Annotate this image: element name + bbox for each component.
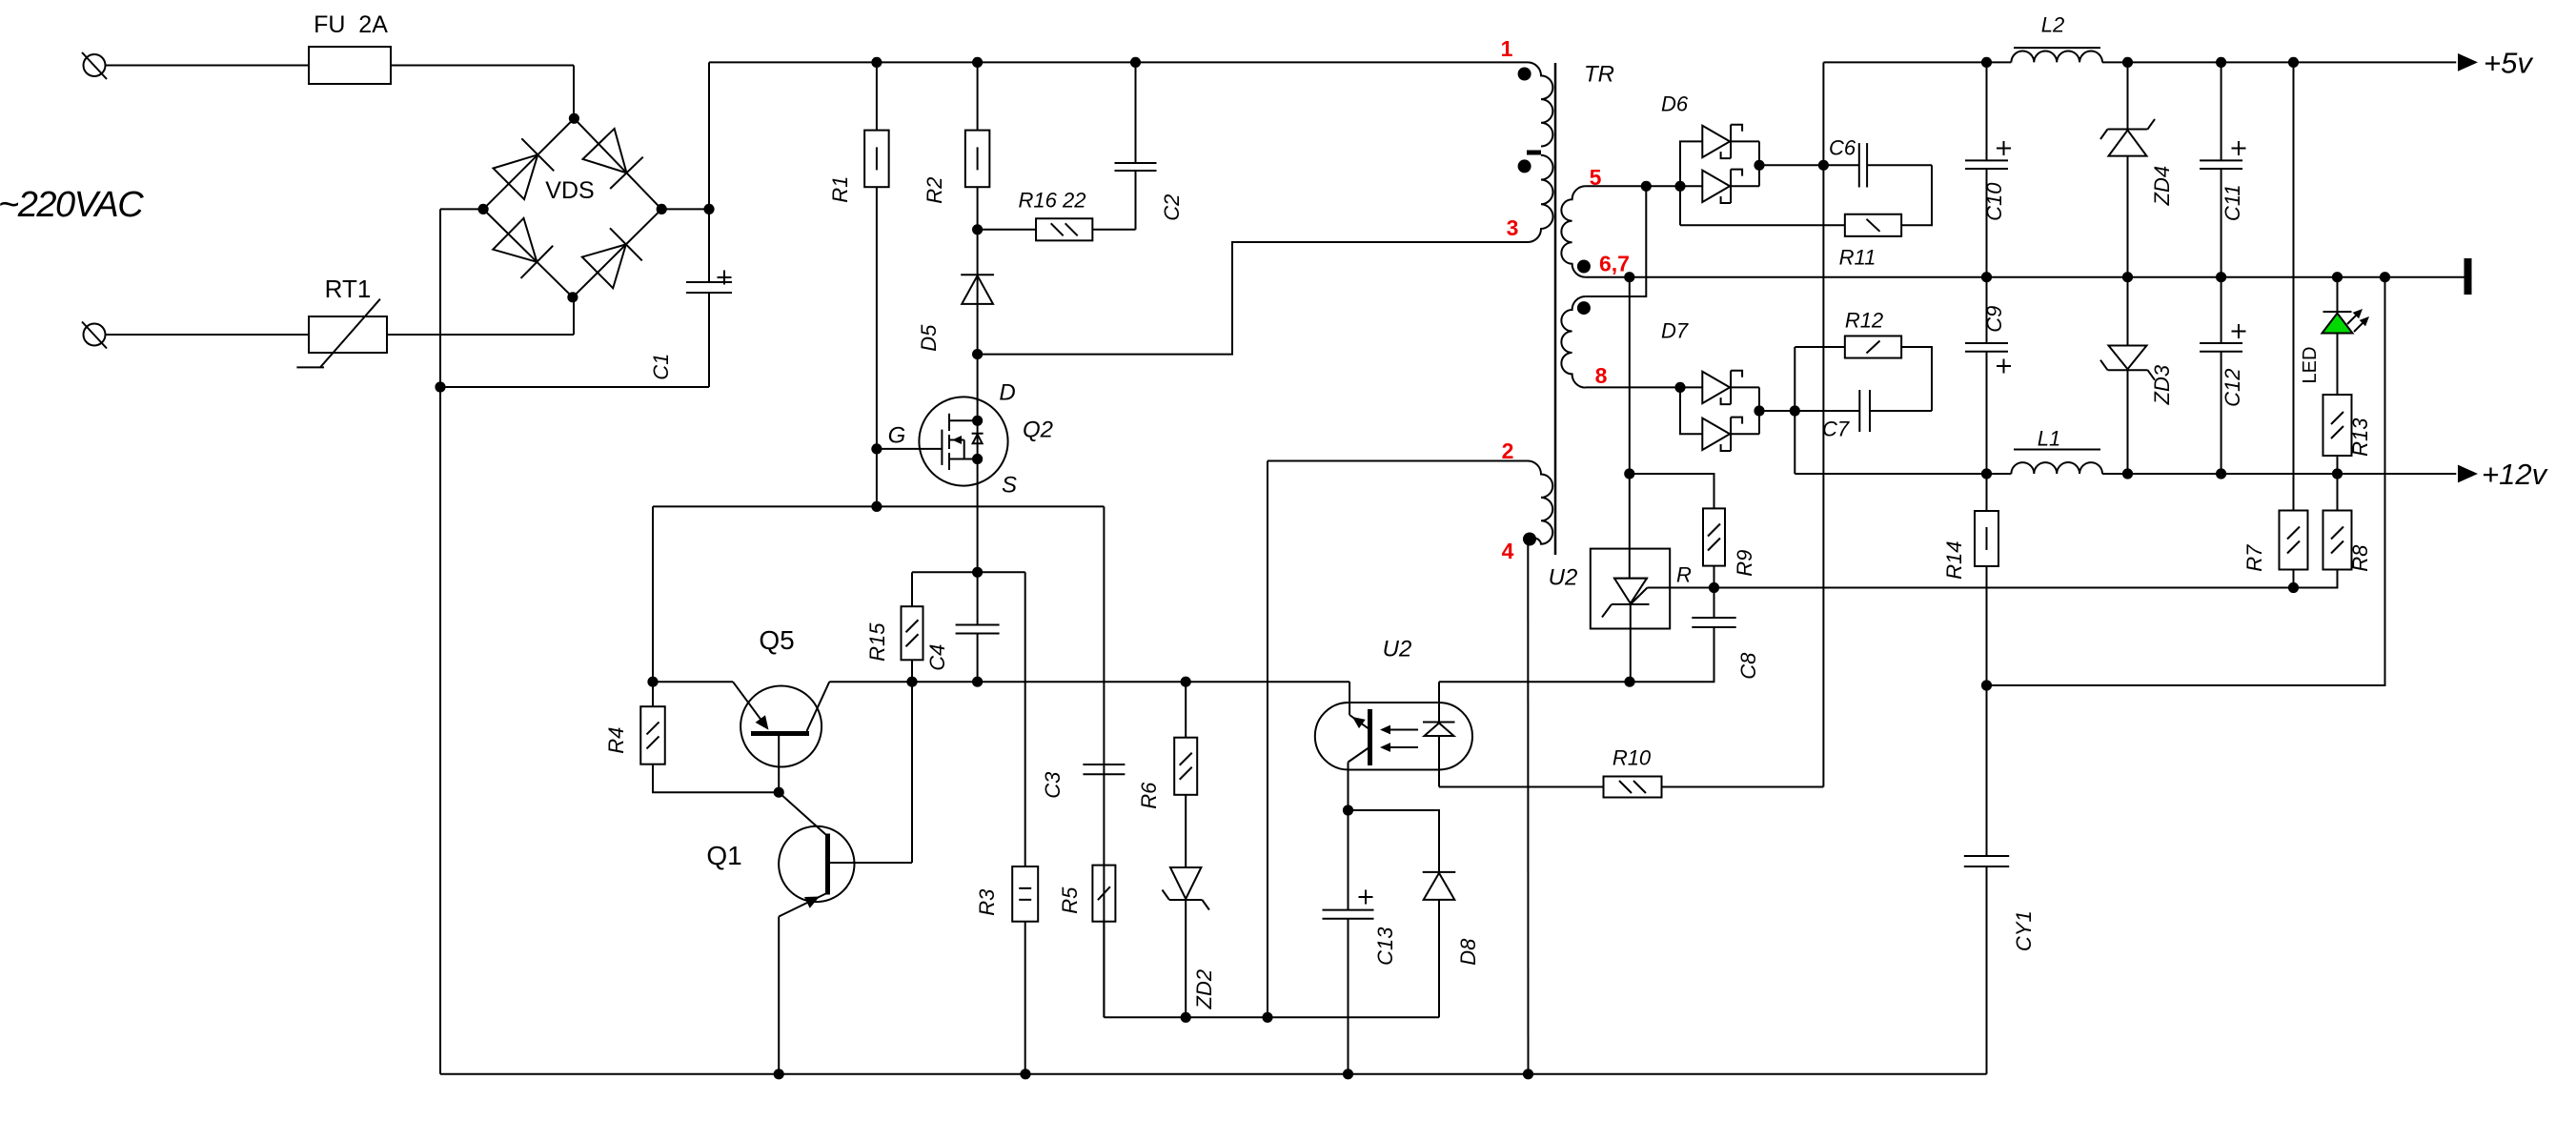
- svg-text:+12v: +12v: [2482, 458, 2548, 491]
- svg-text:1: 1: [1501, 36, 1513, 61]
- svg-text:C9: C9: [1982, 306, 2006, 333]
- svg-text:LED: LED: [2300, 347, 2321, 384]
- svg-text:C8: C8: [1736, 652, 1760, 680]
- svg-text:R5: R5: [1058, 887, 1082, 914]
- svg-text:R9: R9: [1733, 550, 1756, 577]
- svg-text:R3: R3: [975, 888, 999, 916]
- svg-text:C13: C13: [1373, 927, 1397, 966]
- svg-text:C2: C2: [1160, 194, 1184, 221]
- svg-text:C12: C12: [2221, 369, 2244, 407]
- svg-text:R: R: [1676, 563, 1692, 587]
- svg-text:3: 3: [1507, 215, 1519, 240]
- svg-text:R11: R11: [1839, 246, 1876, 270]
- svg-text:R7: R7: [2242, 544, 2266, 572]
- svg-text:6,7: 6,7: [1599, 252, 1630, 276]
- svg-text:CY1: CY1: [2012, 910, 2036, 951]
- svg-text:R12: R12: [1845, 309, 1883, 333]
- svg-text:+5v: +5v: [2484, 47, 2533, 80]
- svg-text:R1: R1: [828, 176, 852, 203]
- svg-text:R10: R10: [1613, 746, 1652, 770]
- svg-text:TR: TR: [1584, 61, 1614, 87]
- svg-text:C7: C7: [1822, 418, 1850, 441]
- svg-text:ZD3: ZD3: [2150, 364, 2174, 405]
- svg-text:R13: R13: [2348, 418, 2372, 457]
- svg-text:D8: D8: [1456, 938, 1480, 966]
- svg-text:C6: C6: [1829, 136, 1856, 160]
- svg-text:R14: R14: [1942, 541, 1966, 580]
- svg-text:Q2: Q2: [1023, 417, 1053, 442]
- svg-text:RT1: RT1: [325, 275, 372, 303]
- svg-text:4: 4: [1502, 539, 1514, 563]
- svg-text:D7: D7: [1661, 319, 1689, 343]
- svg-text:D: D: [999, 379, 1015, 405]
- svg-text:D5: D5: [917, 324, 941, 352]
- svg-text:G: G: [888, 422, 906, 448]
- svg-text:C11: C11: [2221, 184, 2244, 221]
- svg-text:C4: C4: [925, 644, 949, 671]
- svg-text:Q5: Q5: [759, 625, 794, 655]
- svg-text:R6: R6: [1137, 782, 1161, 809]
- svg-text:VDS: VDS: [545, 177, 594, 204]
- svg-text:L1: L1: [2038, 427, 2060, 451]
- svg-text:~220VAC: ~220VAC: [0, 185, 144, 225]
- svg-text:ZD2: ZD2: [1192, 969, 1216, 1010]
- svg-text:FU 2A: FU 2A: [314, 11, 388, 38]
- svg-text:Q1: Q1: [706, 841, 741, 870]
- svg-text:C3: C3: [1041, 771, 1065, 799]
- svg-text:D6: D6: [1661, 92, 1689, 116]
- svg-text:8: 8: [1595, 363, 1608, 388]
- svg-text:ZD4: ZD4: [2150, 166, 2174, 207]
- svg-text:R15: R15: [865, 622, 889, 662]
- svg-text:C1: C1: [649, 354, 673, 380]
- svg-text:C10: C10: [1982, 182, 2006, 221]
- svg-text:R4: R4: [604, 727, 628, 754]
- svg-text:R8: R8: [2348, 544, 2372, 572]
- svg-text:U2: U2: [1549, 564, 1578, 590]
- svg-text:L2: L2: [2041, 13, 2064, 37]
- svg-text:R2: R2: [923, 177, 946, 204]
- svg-text:S: S: [1002, 472, 1017, 498]
- svg-text:R16 22: R16 22: [1019, 189, 1086, 213]
- svg-text:2: 2: [1502, 438, 1514, 463]
- svg-text:U2: U2: [1383, 636, 1412, 662]
